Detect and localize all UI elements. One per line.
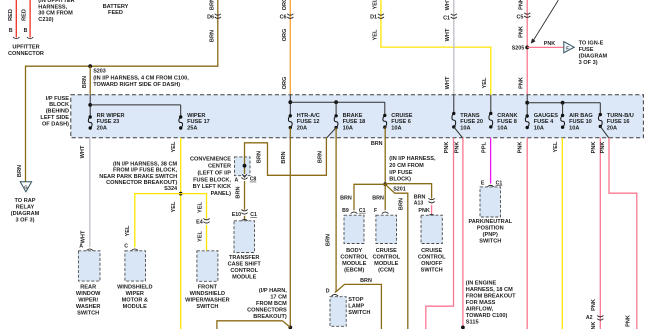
svg-text:MODULE: MODULE [232, 275, 257, 281]
svg-text:WIPER/: WIPER/ [78, 297, 98, 303]
svg-text:SWITCH: SWITCH [479, 239, 501, 245]
svg-text:(DIAGRAM: (DIAGRAM [579, 54, 608, 60]
svg-text:RED: RED [8, 9, 14, 21]
svg-text:TRANSFER: TRANSFER [229, 255, 259, 261]
svg-text:BRN: BRN [372, 196, 384, 202]
svg-text:GAUGES: GAUGES [534, 113, 559, 119]
svg-text:WHT: WHT [80, 145, 86, 158]
svg-text:C8: C8 [250, 177, 257, 183]
svg-text:(LEFT OF I/P: (LEFT OF I/P [197, 170, 231, 176]
svg-text:YEL: YEL [482, 77, 488, 88]
svg-text:WHT: WHT [445, 28, 451, 41]
svg-text:20A: 20A [297, 126, 307, 132]
bus wire left group [89, 95, 91, 117]
svg-text:D1: D1 [370, 15, 377, 21]
fuse F18 BRAKE [334, 114, 337, 117]
svg-text:B: B [24, 28, 28, 34]
svg-text:B: B [9, 28, 13, 34]
svg-text:STOP: STOP [348, 297, 363, 303]
svg-text:BRN: BRN [257, 151, 263, 163]
wire WHT fuse 23 to rear wiper switch [89, 138, 91, 247]
fuse F6 CRUISE [383, 114, 386, 117]
off-page arrow G to RAP relay [20, 182, 31, 192]
svg-text:TOWARD C100): TOWARD C100) [466, 313, 508, 319]
svg-text:CONVENIENCE: CONVENIENCE [190, 157, 231, 163]
component rear window wiper/washer switch [78, 251, 100, 281]
wire trans fuse diagonal in band [454, 127, 463, 138]
svg-text:BY LEFT KICK: BY LEFT KICK [193, 184, 231, 190]
svg-text:F: F [374, 208, 377, 214]
wire BRN E10 to transfer case module [244, 216, 246, 220]
svg-text:TO RAP: TO RAP [14, 198, 35, 204]
svg-text:C: C [124, 244, 128, 250]
connector D6 [215, 14, 221, 15]
svg-text:(I/P HARN,: (I/P HARN, [259, 288, 287, 294]
wire BRN brake fuse to convenience center [326, 128, 336, 139]
svg-text:BRN: BRN [318, 151, 324, 163]
svg-text:ON/OFF: ON/OFF [421, 261, 443, 267]
svg-text:SWITCH: SWITCH [196, 304, 218, 310]
svg-text:(PNP): (PNP) [483, 232, 498, 238]
svg-text:ORG: ORG [282, 29, 288, 42]
junction inside convenience center [243, 164, 247, 168]
svg-text:RED: RED [22, 9, 28, 21]
connector A2 [597, 316, 603, 317]
wire YEL air bag fuse to bottom [561, 138, 563, 329]
svg-text:FUSE 20: FUSE 20 [460, 119, 483, 125]
svg-text:A: A [79, 244, 83, 250]
svg-text:WHT: WHT [445, 76, 451, 89]
svg-text:CRUISE: CRUISE [421, 248, 442, 254]
wire trans fuse feed in band [453, 95, 455, 114]
svg-text:BODY: BODY [346, 248, 362, 254]
svg-text:YEL: YEL [171, 201, 177, 212]
wire BRN S201 to body control module [354, 184, 385, 210]
svg-text:FROM BCM: FROM BCM [256, 301, 287, 307]
off-page arrow F to IGN-E fuse [564, 42, 574, 53]
svg-text:PNK: PNK [591, 322, 597, 329]
svg-text:FOR MASS: FOR MASS [466, 300, 496, 306]
svg-text:(IN I/P HARNESS, 4 CM FROM C10: (IN I/P HARNESS, 4 CM FROM C100, [93, 75, 189, 81]
svg-text:C1: C1 [443, 15, 450, 21]
svg-text:(IN I/P HARNESS,: (IN I/P HARNESS, [389, 156, 436, 162]
svg-text:FUSE 12: FUSE 12 [297, 119, 320, 125]
svg-text:S205: S205 [512, 46, 525, 52]
svg-text:(IN I/P HARNESS, 38 CM: (IN I/P HARNESS, 38 CM [113, 161, 178, 167]
wire PNK A13 to cruise on/off switch [431, 205, 433, 216]
svg-text:20A: 20A [607, 126, 617, 132]
svg-text:FUSE: FUSE [579, 47, 594, 53]
svg-text:I/P FUSE: I/P FUSE [46, 96, 69, 102]
svg-text:ORG: ORG [282, 0, 288, 10]
svg-text:HTR-A/C: HTR-A/C [297, 113, 320, 119]
svg-text:FUSE 6: FUSE 6 [391, 119, 411, 125]
svg-text:CONTROL: CONTROL [418, 255, 446, 261]
svg-text:FROM BREAKOUT: FROM BREAKOUT [466, 293, 516, 299]
svg-text:10A: 10A [534, 126, 544, 132]
wire PNK gauges fuse to bottom [526, 138, 528, 329]
svg-text:BRN: BRN [371, 141, 383, 147]
svg-text:CONNECTORS: CONNECTORS [247, 307, 287, 313]
svg-text:CONNECTOR BREAKOUT): CONNECTOR BREAKOUT) [106, 180, 177, 186]
component cruise control on/off switch [421, 215, 442, 243]
svg-text:MODULE: MODULE [123, 304, 148, 310]
component windshield wiper motor and module [125, 251, 146, 281]
wire RED upfitter feed 2 [29, 0, 31, 38]
bus wire right group [526, 95, 528, 116]
svg-text:YEL: YEL [372, 0, 378, 9]
wire YEL from D1 jog to crank fuse [381, 0, 491, 95]
svg-text:SWITCH: SWITCH [421, 268, 443, 274]
wire BRN stop lamp junction to bottom exit [336, 284, 382, 329]
wire crank fuse feed in band [490, 95, 492, 114]
component transfer case shift control module [234, 221, 255, 253]
svg-text:(IN ENGINE: (IN ENGINE [466, 280, 497, 286]
svg-text:BRN: BRN [340, 196, 352, 202]
wire turn fuse diagonal in band [600, 126, 609, 138]
svg-text:17 CM: 17 CM [270, 295, 287, 301]
svg-text:I/P FUSE: I/P FUSE [389, 170, 412, 176]
svg-text:S203: S203 [93, 68, 106, 74]
svg-text:TURN-B/U: TURN-B/U [607, 113, 634, 119]
svg-text:YEL: YEL [125, 225, 131, 236]
svg-text:WASHER: WASHER [76, 304, 101, 310]
svg-text:PNK: PNK [626, 315, 632, 327]
svg-text:WINDOW: WINDOW [76, 291, 101, 297]
fuse F12 HTR-A/C [289, 114, 292, 117]
svg-text:CENTER: CENTER [208, 164, 231, 170]
svg-text:YEL: YEL [171, 141, 177, 152]
svg-text:PNK: PNK [518, 142, 524, 154]
svg-text:WHT: WHT [81, 230, 87, 243]
connector E4 [203, 219, 209, 220]
svg-text:UPFITTER: UPFITTER [12, 45, 39, 51]
wire BRN S201 diagonal to bottom exit [385, 184, 408, 329]
svg-text:PPL: PPL [482, 141, 488, 152]
svg-text:3 OF 3): 3 OF 3) [579, 60, 598, 66]
svg-text:C1: C1 [359, 208, 366, 214]
svg-text:PANEL): PANEL) [211, 191, 232, 197]
svg-text:FUSE 17: FUSE 17 [187, 119, 210, 125]
svg-text:PARK/NEUTRAL: PARK/NEUTRAL [468, 219, 512, 225]
wire PPL crank fuse to PNP switch [490, 138, 492, 184]
svg-text:FUSE 18: FUSE 18 [343, 119, 366, 125]
svg-text:BRN: BRN [325, 234, 331, 246]
svg-text:BRN: BRN [82, 76, 88, 88]
svg-text:PNK: PNK [600, 142, 606, 154]
svg-text:ORG: ORG [282, 77, 288, 90]
node S115 [461, 326, 465, 329]
svg-text:TRANS: TRANS [460, 113, 480, 119]
wire RED upfitter feed 1 [15, 0, 17, 38]
svg-text:YEL: YEL [198, 230, 204, 241]
component cruise control module CCM [376, 215, 397, 243]
svg-text:BRN: BRN [209, 0, 215, 10]
svg-text:BRN: BRN [281, 151, 287, 163]
fuse F8 CRANK [489, 112, 492, 115]
node S201 [383, 182, 387, 186]
connector C1 top [451, 14, 457, 15]
svg-text:PNK: PNK [444, 142, 450, 154]
svg-text:C6: C6 [280, 15, 287, 21]
fuse F23 RR WIPER [89, 115, 92, 118]
connector C6 [287, 14, 293, 15]
svg-text:WINDSHIELD: WINDSHIELD [190, 291, 225, 297]
svg-text:WHT: WHT [445, 0, 451, 10]
component park/neutral position switch [480, 187, 501, 217]
svg-text:POSITION: POSITION [477, 226, 504, 232]
svg-text:MODULE: MODULE [342, 261, 367, 267]
svg-text:E4: E4 [196, 219, 203, 225]
svg-text:C210): C210) [38, 17, 53, 23]
svg-text:PNK: PNK [591, 299, 597, 311]
svg-text:FEED: FEED [108, 10, 123, 16]
wire BRN C8 to E10 [244, 181, 246, 210]
svg-text:FUSE BLOCK,: FUSE BLOCK, [193, 177, 231, 183]
svg-text:(CCM): (CCM) [378, 268, 395, 274]
svg-text:BRN: BRN [209, 30, 215, 42]
svg-text:PNK: PNK [418, 208, 429, 214]
svg-text:20A: 20A [97, 126, 107, 132]
wire YEL S324 to E4 [181, 194, 207, 219]
svg-text:A2: A2 [586, 315, 593, 321]
wire BRN S201 to A13 connector [385, 184, 431, 199]
svg-text:(BEHIND: (BEHIND [46, 109, 69, 115]
connector D1 [378, 14, 384, 15]
svg-text:MOTOR &: MOTOR & [122, 297, 148, 303]
svg-text:CRANK: CRANK [497, 113, 517, 119]
svg-text:WIPER: WIPER [126, 291, 144, 297]
component body control module EBCM [344, 215, 364, 243]
svg-text:BLOCK: BLOCK [49, 102, 69, 108]
svg-text:D6: D6 [207, 15, 214, 21]
wire PNK trans fuse second drop to S115 [462, 138, 464, 329]
wire BRN S201 to cruise control module [384, 184, 386, 210]
svg-text:SWITCH: SWITCH [77, 310, 99, 316]
svg-text:A13: A13 [414, 201, 424, 207]
svg-text:PNK: PNK [454, 142, 460, 154]
svg-text:LEFT SIDE: LEFT SIDE [40, 115, 69, 121]
wire YEL E4 to front switch [206, 225, 208, 251]
wire YEL fuse 17 to S324 and bottom [180, 138, 182, 329]
I/P fuse block band [71, 95, 644, 138]
svg-text:PNK: PNK [519, 77, 525, 89]
svg-text:C1: C1 [496, 180, 503, 186]
svg-text:BATTERY: BATTERY [103, 4, 129, 10]
svg-text:C5: C5 [516, 15, 523, 21]
svg-text:BREAKOUT): BREAKOUT) [253, 314, 287, 320]
svg-text:PNK: PNK [591, 142, 597, 154]
svg-text:E: E [481, 180, 485, 186]
svg-text:FUSE 16: FUSE 16 [607, 119, 630, 125]
svg-text:AIRFLOW,: AIRFLOW, [466, 306, 494, 312]
connector A13 [429, 198, 435, 199]
svg-text:CRUISE: CRUISE [391, 113, 412, 119]
svg-text:30 CM FROM: 30 CM FROM [38, 11, 73, 17]
node S324 [179, 192, 183, 196]
component stop lamp switch [330, 297, 346, 327]
svg-text:(EBCM): (EBCM) [344, 268, 364, 274]
svg-text:BRN: BRN [399, 198, 405, 210]
svg-text:CONTROL: CONTROL [372, 255, 400, 261]
svg-text:10A: 10A [391, 126, 401, 132]
svg-text:YEL: YEL [553, 141, 559, 152]
svg-text:NEAR PARK BRAKE SWITCH: NEAR PARK BRAKE SWITCH [99, 174, 177, 180]
wire ORG from C6 to fuse block [289, 0, 291, 95]
svg-text:BRN: BRN [236, 186, 242, 198]
wire PNK S205 to IGN-E arrow [527, 46, 563, 48]
svg-text:FUSE 8: FUSE 8 [497, 119, 517, 125]
svg-text:PNK: PNK [544, 41, 555, 47]
svg-text:SWITCH: SWITCH [348, 310, 370, 316]
svg-text:FROM I/P FUSE BLOCK,: FROM I/P FUSE BLOCK, [113, 168, 178, 174]
wire PNK trans fuse straight drop with jog to bottom [426, 138, 454, 329]
svg-text:OF DASH): OF DASH) [42, 121, 69, 127]
svg-text:WINDSHIELD: WINDSHIELD [117, 284, 152, 290]
fuse F4 GAUGES [526, 114, 529, 117]
leader line to S205 [533, 0, 558, 41]
wire PNK turn fuse second drop stepping right to bottom [609, 138, 637, 329]
svg-text:TO IGN-E: TO IGN-E [579, 41, 604, 47]
svg-text:RELAY: RELAY [16, 205, 35, 211]
svg-text:BLOCK): BLOCK) [389, 177, 411, 183]
svg-text:10A: 10A [460, 126, 470, 132]
wire BRN cruise fuse 6 to S201 [384, 127, 386, 184]
svg-text:BRN: BRN [414, 195, 426, 201]
wire BRN htr-a/c fuse to bottom [289, 128, 291, 329]
svg-text:FUSE 4: FUSE 4 [534, 119, 554, 125]
svg-text:CRUISE: CRUISE [376, 248, 397, 254]
svg-text:S115: S115 [466, 319, 479, 325]
wire PNK from C5 through S205 to fuse block [526, 0, 528, 95]
svg-text:C1: C1 [250, 212, 257, 218]
svg-text:WIPER: WIPER [187, 113, 205, 119]
svg-text:20 CM FROM: 20 CM FROM [389, 163, 424, 169]
wire BRN S203 down to fuse block [89, 66, 91, 95]
node S205 [525, 46, 529, 50]
svg-text:LAMP: LAMP [348, 304, 364, 310]
svg-text:AIR BAG: AIR BAG [569, 113, 593, 119]
svg-text:FUSE 23: FUSE 23 [97, 119, 120, 125]
svg-text:REAR: REAR [80, 284, 96, 290]
wire BRN branch to bottom left exit [217, 321, 290, 329]
wire BRN battery feed from D6 to S203 to RAP relay [26, 0, 218, 182]
half connector A/C8 [242, 174, 246, 177]
svg-text:10A: 10A [569, 126, 579, 132]
svg-text:(DIAGRAM: (DIAGRAM [11, 211, 40, 217]
svg-text:3 OF 3): 3 OF 3) [16, 218, 35, 224]
svg-text:A: A [234, 177, 238, 183]
bus wire middle group [289, 95, 291, 116]
wire BRN brake fuse to stop lamp switch [335, 128, 336, 293]
svg-text:CASE SHIFT: CASE SHIFT [228, 262, 262, 268]
fuse F10 AIR BAG [561, 114, 564, 117]
svg-text:PNK: PNK [519, 0, 525, 10]
connector E10/C1 [241, 210, 247, 211]
component convenience center [235, 157, 251, 176]
fuse F16 TURN-B/U [599, 113, 602, 116]
svg-text:F: F [566, 45, 569, 50]
svg-text:CONNECTOR: CONNECTOR [8, 51, 44, 57]
node S203 [88, 64, 92, 68]
fuse F17 WIPER [179, 115, 182, 118]
fuse F20 TRANS [452, 112, 455, 115]
svg-text:25A: 25A [187, 126, 197, 132]
svg-text:HARNESS,: HARNESS, [38, 4, 67, 10]
svg-text:WIPER/WASHER: WIPER/WASHER [185, 297, 229, 303]
svg-text:S324: S324 [164, 186, 178, 192]
svg-text:HARNESS, 18 CM: HARNESS, 18 CM [466, 287, 513, 293]
wire YEL S324 to wiper motor [135, 194, 181, 248]
svg-text:BRAKE: BRAKE [343, 113, 363, 119]
svg-text:TOWARD RIGHT SIDE OF DASH): TOWARD RIGHT SIDE OF DASH) [93, 82, 180, 88]
svg-text:E10: E10 [232, 212, 241, 218]
svg-text:RR WIPER: RR WIPER [97, 113, 125, 119]
connector C5 [524, 13, 530, 14]
svg-text:CONTROL: CONTROL [230, 268, 258, 274]
svg-text:BRN: BRN [360, 278, 372, 284]
svg-text:D: D [326, 288, 330, 294]
svg-text:CONTROL: CONTROL [340, 255, 368, 261]
wire BRN inside convenience center [244, 157, 246, 174]
junction at bottom of BRN drop [288, 326, 292, 329]
svg-text:YEL: YEL [372, 29, 378, 40]
svg-text:S201: S201 [393, 187, 406, 193]
component front windshield wiper/washer switch [197, 251, 218, 281]
svg-text:BRN: BRN [17, 165, 23, 177]
svg-text:YEL: YEL [198, 201, 204, 212]
wire PNK turn fuse straight drop to A2 [599, 138, 601, 329]
svg-text:B9: B9 [342, 208, 349, 214]
wire WHT from C1 to trans fuse [453, 0, 455, 95]
svg-text:FUSE 10: FUSE 10 [569, 119, 592, 125]
svg-text:10A: 10A [343, 126, 353, 132]
svg-text:10A: 10A [497, 126, 507, 132]
svg-text:MODULE: MODULE [374, 261, 399, 267]
svg-text:FRONT: FRONT [198, 284, 218, 290]
svg-text:PNK: PNK [519, 26, 525, 38]
